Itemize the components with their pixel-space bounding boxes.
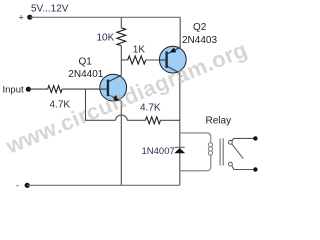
wire R 4.7K to Q1 base (62, 88, 100, 90)
relay coil (180, 133, 213, 171)
wire 10K bottom to Q1 collector (120, 46, 122, 76)
wire 10K top lead (120, 17, 122, 28)
wire feedback resistor to Q2 collector line (161, 119, 180, 121)
wire hop to feedback resistor (127, 119, 145, 121)
resistor R 4.7K input (48, 86, 62, 93)
node input terminal dot (26, 87, 31, 92)
node supply terminal dot (27, 15, 32, 20)
svg-text:1K: 1K (133, 45, 146, 56)
svg-text:10K: 10K (97, 33, 115, 44)
svg-text:Input: Input (3, 85, 24, 96)
svg-text:+: + (19, 13, 24, 23)
diode D 1N4007 (174, 147, 185, 153)
wire input to R 4.7K (28, 88, 47, 90)
relay core (220, 138, 223, 165)
wire 1K to Q2 base (146, 59, 167, 61)
transistor Q1 2N4401 NPN (100, 74, 127, 101)
svg-text:Q2: Q2 (193, 22, 207, 33)
svg-text:5V...12V: 5V...12V (31, 4, 69, 15)
transistor Q2 2N4403 PNP (159, 46, 186, 73)
relay contact bottom pivot (229, 162, 233, 166)
wire 1K left lead (121, 59, 127, 61)
node relay top terminal dot (253, 136, 257, 140)
relay moving arm (232, 144, 244, 159)
wire relay top contact lead (232, 138, 254, 141)
wire Q1 emitter down to ground rail (120, 101, 122, 185)
wire hop over Q1 emitter line (116, 115, 128, 120)
svg-text:1N4007: 1N4007 (142, 146, 175, 157)
node relay bottom terminal dot (253, 167, 257, 171)
wire feedback drop from Q1 base (86, 89, 116, 120)
resistor R 10K (117, 28, 126, 46)
wire Q2 collector down to ground rail (179, 73, 181, 185)
relay contact top pivot (229, 140, 233, 144)
node ground terminal dot (25, 183, 30, 188)
resistor R 1K (128, 56, 146, 64)
wire Q2 emitter to top rail (179, 17, 181, 48)
svg-text:2N4401: 2N4401 (68, 69, 103, 80)
svg-text:-: - (16, 181, 19, 191)
svg-text:Relay: Relay (206, 115, 232, 126)
wire relay bottom contact lead (232, 166, 254, 170)
wire top rail (30, 16, 180, 18)
svg-text:2N4403: 2N4403 (182, 35, 217, 46)
resistor R 4.7K feedback (145, 117, 160, 124)
svg-text:Q1: Q1 (79, 57, 93, 68)
wire bottom ground rail (27, 184, 180, 186)
